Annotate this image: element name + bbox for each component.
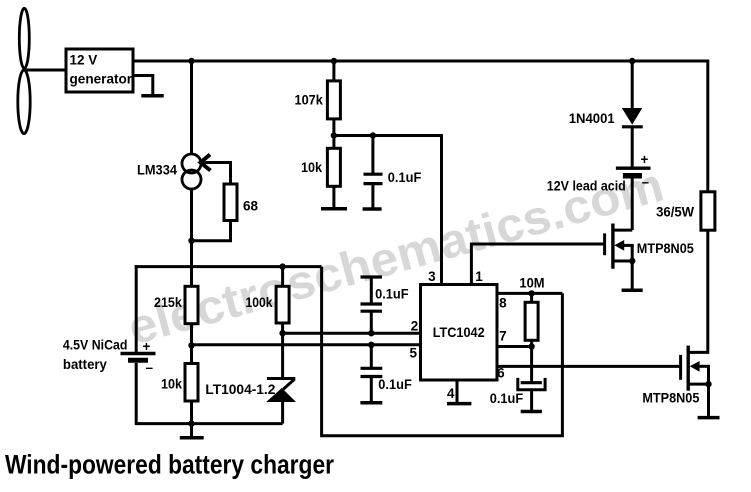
svg-text:0.1uF: 0.1uF — [388, 170, 422, 185]
wire junction to pin3 — [334, 136, 442, 285]
node 107k top — [331, 58, 337, 64]
wire pin1 to gate — [471, 244, 604, 285]
wire generator to ground — [133, 76, 153, 96]
watermark electroschematics.com — [123, 159, 669, 356]
node Q1 source/body — [629, 258, 635, 264]
wire pin6 line to Q2 gate — [497, 365, 681, 368]
svg-text:MTP8N05: MTP8N05 — [637, 241, 694, 256]
zener LT1004-1.2 — [266, 379, 296, 403]
svg-text:0.1uF: 0.1uF — [490, 391, 524, 406]
label 0.1uF C3 — [378, 377, 412, 392]
svg-text:3: 3 — [428, 269, 436, 284]
label 0.1uF C2 — [375, 287, 409, 302]
svg-text:10M: 10M — [519, 276, 544, 291]
svg-text:6: 6 — [497, 366, 505, 381]
node bottom rail ground junction — [188, 420, 194, 426]
label - 12V battery — [642, 175, 650, 190]
wire battery bottom branch — [135, 363, 138, 425]
svg-text:4: 4 — [447, 386, 455, 401]
wire top rail — [133, 61, 708, 193]
node Q2 source/body — [705, 381, 711, 387]
label 107k — [295, 93, 324, 108]
wire 10M to pin7 node — [530, 340, 533, 346]
svg-text:7: 7 — [499, 329, 507, 344]
label 100k — [246, 295, 273, 310]
svg-text:2: 2 — [411, 319, 419, 334]
svg-text:100k: 100k — [246, 295, 273, 310]
resistor 100k — [276, 286, 289, 323]
svg-text:10k: 10k — [301, 160, 322, 175]
label 10k upper — [301, 160, 322, 175]
wire 107k to junction — [332, 119, 335, 136]
svg-text:215k: 215k — [154, 295, 182, 310]
svg-text:10k: 10k — [161, 377, 182, 392]
capacitor C4 0.1uF polarized — [518, 378, 545, 390]
label MTP8N05 Q2 — [642, 391, 699, 406]
transistor Q1 MTP8N05 — [605, 224, 634, 269]
label LM334 — [137, 163, 177, 178]
wire LM334 down to 215k — [190, 189, 193, 288]
resistor 10k upper — [327, 148, 340, 186]
current source LM334 — [182, 154, 201, 189]
wire mid-left horizontal — [135, 265, 322, 268]
wire node to LM334 — [190, 61, 193, 155]
ground (cap3) — [360, 401, 382, 405]
wire pin5 line — [192, 343, 421, 346]
ground (Q2) — [698, 416, 720, 420]
pin 2 — [411, 319, 419, 334]
battery 12V lead acid — [616, 168, 651, 176]
node cap1 tap — [370, 132, 376, 138]
svg-text:8: 8 — [499, 296, 507, 311]
wire diode to battery — [631, 127, 634, 167]
label 0.1uF C1 — [388, 170, 422, 185]
wire rail to diode — [631, 61, 634, 109]
label 10k lower — [161, 377, 182, 392]
node 68/LM334 junction — [188, 238, 194, 244]
label 36/5W — [656, 205, 694, 220]
svg-text:LTC1042: LTC1042 — [433, 325, 485, 340]
wire cap2 to pin2 line — [370, 313, 373, 334]
label LT1004-1.2 — [205, 382, 275, 397]
svg-text:Wind-powered battery charger: Wind-powered battery charger — [5, 450, 334, 480]
capacitor C1 0.1uF — [364, 174, 383, 183]
svg-text:1N4001: 1N4001 — [569, 111, 615, 126]
label LTC1042 — [433, 325, 485, 340]
wire 100k bottom to zener — [281, 323, 284, 378]
turbine shaft wire — [26, 69, 66, 72]
generator box — [66, 49, 133, 92]
label + NiCad — [143, 339, 151, 354]
svg-text:36/5W: 36/5W — [656, 205, 694, 220]
pin 4 — [447, 386, 455, 401]
svg-text:+: + — [143, 339, 151, 354]
wire pin2 line — [283, 332, 421, 335]
ground (left rail) — [180, 424, 204, 438]
wire junction to 10k upper — [332, 136, 335, 149]
wire 100k top — [281, 267, 284, 287]
ground (pin4) — [447, 402, 471, 406]
svg-text:5: 5 — [409, 346, 417, 361]
ground (cap1) — [363, 207, 382, 211]
node 100k top — [279, 263, 285, 269]
battery 4.5V NiCad — [121, 354, 156, 361]
wire pin4 to ground — [456, 380, 459, 403]
node diode tap — [629, 58, 635, 64]
label 1N4001 — [569, 111, 615, 126]
wind turbine blades — [18, 8, 30, 133]
node 215k/10k/pin5 junction — [188, 342, 194, 348]
wire rail to 107k — [332, 61, 335, 82]
node 107k/10k junction — [331, 132, 337, 138]
wire pin8 line — [497, 292, 562, 295]
pin 5 — [409, 346, 417, 361]
capacitor C2 0.1uF terminal bar — [361, 275, 383, 278]
wire battery to Q1 drain — [631, 179, 634, 231]
wire Q1 source to ground — [631, 261, 634, 290]
capacitor C2 0.1uF plates — [361, 304, 383, 311]
resistor 10k lower — [185, 364, 198, 402]
pin 8 — [499, 296, 507, 311]
label 215k — [154, 295, 182, 310]
ground (generator) — [141, 94, 163, 98]
wire 10k upper to ground — [332, 186, 335, 208]
svg-text:0.1uF: 0.1uF — [375, 287, 409, 302]
wire battery top branch — [135, 265, 138, 352]
resistor 36/5W — [701, 192, 715, 230]
pin 7 — [499, 329, 507, 344]
svg-text:1: 1 — [475, 269, 483, 284]
node 100k/pin2 junction — [279, 330, 285, 336]
wire pin7 line — [497, 345, 532, 348]
label - NiCad — [146, 360, 154, 375]
wire pin8 to 10M — [530, 293, 533, 303]
diode 1N4001 — [622, 108, 643, 127]
svg-text:–: – — [146, 360, 154, 375]
svg-text:LM334: LM334 — [137, 163, 177, 178]
wire terminal to cap2 — [370, 277, 373, 305]
label + 12V battery — [641, 152, 649, 167]
label 4.5V NiCad battery — [63, 338, 128, 373]
label MTP8N05 Q1 — [637, 241, 694, 256]
wire Q2 source to ground — [707, 384, 710, 417]
pin 1 — [475, 269, 483, 284]
svg-text:generator: generator — [70, 72, 133, 87]
wire arrow to 68 resistor — [229, 163, 232, 186]
label 10M — [519, 276, 544, 291]
wire 36/5W to Q2 drain — [688, 230, 708, 352]
ground (10k upper) — [321, 207, 347, 211]
svg-text:12 V: 12 V — [70, 53, 98, 68]
wire left bottom rail — [136, 422, 282, 425]
svg-text:0.1uF: 0.1uF — [378, 377, 412, 392]
svg-text:107k: 107k — [295, 93, 324, 108]
label 12 V generator — [70, 53, 133, 87]
pin 6 — [497, 366, 505, 381]
wire 10k to rail — [190, 401, 193, 424]
resistor 10M — [525, 302, 538, 340]
node cap2/pin2 — [368, 330, 374, 336]
label 68 — [243, 199, 259, 214]
label 0.1uF C4 — [490, 391, 524, 406]
node pin7/10M — [528, 343, 534, 349]
resistor 68 — [224, 184, 237, 221]
title Wind-powered battery charger — [5, 450, 334, 480]
ground (cap4) — [521, 410, 542, 414]
svg-text:4.5V NiCad: 4.5V NiCad — [63, 338, 128, 353]
wire mid loop left vertical — [322, 267, 563, 436]
wire zener to rail — [281, 401, 284, 424]
wire junction to cap1 — [371, 136, 374, 174]
svg-text:12V lead acid: 12V lead acid — [547, 178, 626, 193]
svg-text:LT1004-1.2: LT1004-1.2 — [205, 382, 275, 397]
svg-text:battery: battery — [63, 357, 107, 372]
svg-text:+: + — [641, 152, 649, 167]
svg-text:–: – — [642, 175, 650, 190]
wire pin7 node down to cap4 — [530, 347, 533, 383]
svg-text:MTP8N05: MTP8N05 — [642, 391, 699, 406]
resistor 107k — [327, 81, 340, 119]
resistor 215k — [185, 286, 198, 323]
LM334 set-resistor arrow wire — [201, 155, 233, 171]
svg-text:68: 68 — [243, 199, 259, 214]
op-amp U1 LTC1042 box — [421, 285, 498, 381]
node pin8/10M — [528, 290, 534, 296]
wire pin5 to cap3 — [370, 345, 373, 369]
node cap3/pin5 — [368, 342, 374, 348]
transistor Q2 MTP8N05 — [681, 346, 710, 391]
wire cap4 to ground — [530, 391, 533, 410]
ground (Q1) — [622, 288, 643, 292]
capacitor C3 0.1uF plates — [361, 368, 383, 376]
pin 3 — [428, 269, 436, 284]
wire 215k to 10k — [190, 324, 193, 364]
wire cap3 to ground — [370, 378, 373, 402]
node top rail / LM334 branch — [188, 58, 194, 64]
wire 68 resistor bottom return — [192, 221, 231, 241]
wire cap1 to ground — [371, 185, 374, 208]
label 12V lead acid — [547, 178, 626, 193]
